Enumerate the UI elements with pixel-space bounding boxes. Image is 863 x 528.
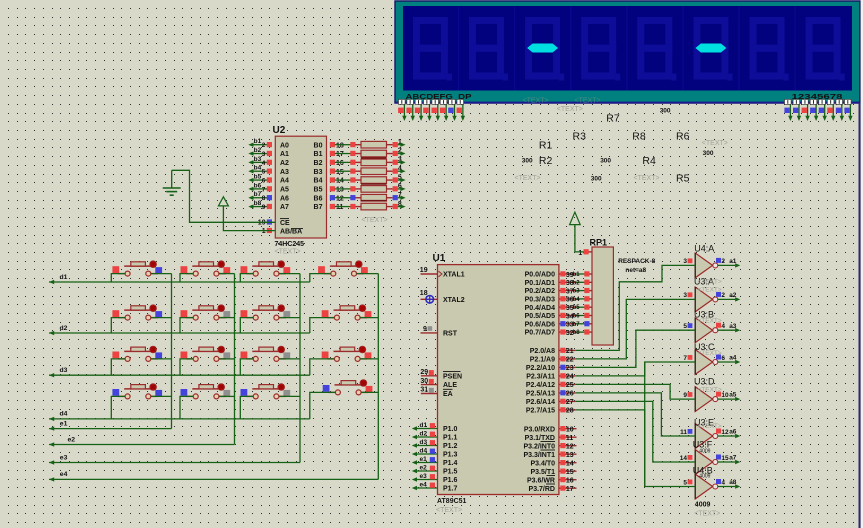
svg-text:e1: e1 (420, 456, 428, 463)
svg-text:P0.5/AD5: P0.5/AD5 (525, 313, 555, 320)
svg-text:4009: 4009 (699, 448, 710, 454)
svg-text:<TEXT>: <TEXT> (698, 386, 722, 393)
svg-text:22: 22 (566, 357, 574, 364)
U1 pin P3.6/WR (pin 16) (527, 476, 577, 485)
push button row3 col1 (112, 346, 162, 361)
svg-text:P1.5: P1.5 (443, 469, 458, 476)
inverter U4:A (4009) (683, 253, 740, 278)
U1 pin P2.3/A11 (pin 24) (526, 373, 575, 381)
wire column bus e4 (49, 477, 378, 481)
svg-text:d3: d3 (420, 439, 428, 446)
svg-text:R5: R5 (676, 173, 690, 185)
svg-text:P2.6/A14: P2.6/A14 (526, 399, 555, 406)
push button row2 col2 (181, 305, 231, 320)
ground (163, 170, 181, 195)
display segment pin A (398, 99, 407, 121)
wire P2.4 to U3:D input (575, 384, 695, 399)
svg-text:XTAL2: XTAL2 (443, 297, 465, 304)
svg-text:b7: b7 (254, 191, 262, 198)
svg-text:b3: b3 (254, 156, 262, 163)
svg-text:15: 15 (566, 469, 574, 476)
resistor R2 (300) segment line 2 (330, 148, 406, 158)
svg-text:B3: B3 (314, 169, 323, 176)
svg-text:R3: R3 (573, 130, 587, 142)
wire row bus d1 (49, 280, 310, 284)
svg-text:8: 8 (262, 195, 266, 202)
svg-text:b5: b5 (573, 305, 581, 311)
svg-text:EA: EA (443, 391, 453, 398)
U2 pin A1 (pin 3) wire b2 (248, 147, 289, 158)
svg-text:12: 12 (336, 195, 344, 202)
svg-text:<TEXT>: <TEXT> (436, 507, 462, 514)
display ghost digit 7 (753, 20, 789, 80)
svg-text:12: 12 (721, 429, 729, 436)
svg-text:13: 13 (566, 452, 574, 459)
wire column line col3 vertical (299, 274, 301, 463)
svg-text:R1: R1 (539, 139, 553, 151)
svg-text:R8: R8 (632, 130, 646, 142)
svg-text:P1.2: P1.2 (443, 443, 458, 450)
wire P2.6 to U3:F input (575, 401, 695, 462)
U1 pin P1.5 wire e2 (412, 464, 458, 475)
svg-text:13: 13 (336, 187, 344, 194)
wire ground to U2 CE (172, 170, 276, 222)
svg-text:A7: A7 (280, 204, 289, 211)
wire P2.3 to U3:C input (575, 362, 695, 376)
svg-text:24: 24 (566, 374, 574, 381)
svg-text:3: 3 (262, 151, 266, 158)
svg-text:7: 7 (262, 186, 266, 193)
svg-text:R4: R4 (642, 155, 656, 167)
svg-text:P0.2/AD2: P0.2/AD2 (525, 288, 555, 295)
svg-text:R7: R7 (606, 113, 620, 125)
svg-text:P3.3/INT1: P3.3/INT1 (523, 452, 555, 459)
push button row1 col2 (181, 261, 231, 276)
U1 pin P0.3/AD3 (pin 36) net b4 (525, 296, 592, 304)
svg-text:5: 5 (683, 323, 687, 330)
push button row3 col2 (181, 346, 231, 361)
wire column bus e2 (49, 442, 235, 446)
push button row4 col1 (112, 384, 162, 399)
U1 pin P2.1/A9 (pin 22) (530, 356, 576, 364)
resistor R1 (300) segment line 1 (330, 139, 406, 149)
wire segment shared vertical x644.7 (644, 362, 646, 487)
svg-text:P0.0/AD0: P0.0/AD0 (525, 272, 555, 279)
svg-text:10: 10 (721, 392, 729, 399)
display segment pin F (440, 99, 449, 121)
wire button r3c2 left lead to row bus d3 (180, 359, 193, 375)
display bottom border line (395, 102, 860, 104)
svg-text:<TEXT>: <TEXT> (362, 217, 388, 224)
svg-text:<TEXT>: <TEXT> (702, 140, 728, 147)
svg-text:AT89C51: AT89C51 (437, 498, 467, 505)
svg-text:P2.3/A11: P2.3/A11 (526, 374, 555, 381)
svg-text:14: 14 (336, 178, 344, 185)
U1 pin P3.3/INT1 (pin 13) (523, 450, 576, 459)
svg-text:P0.6/AD6: P0.6/AD6 (525, 321, 555, 328)
lit middle segment (cyan) (695, 44, 726, 53)
MCU U1 AT89C51 body (433, 253, 559, 505)
wire P2.1 to U3:A input (575, 299, 695, 359)
svg-text:e3: e3 (420, 473, 428, 480)
svg-text:d1: d1 (60, 274, 68, 281)
svg-text:10: 10 (566, 427, 574, 434)
svg-text:a5: a5 (729, 392, 737, 399)
display digit pin 1 (784, 99, 792, 121)
svg-text:a2: a2 (729, 292, 737, 299)
svg-text:d4: d4 (60, 411, 68, 418)
U2 pin A7 (pin 9) wire b8 (248, 200, 289, 211)
svg-text:2: 2 (721, 258, 725, 265)
svg-text:A0: A0 (280, 142, 289, 149)
svg-text:b2: b2 (254, 147, 262, 154)
svg-text:a1: a1 (729, 258, 737, 265)
svg-text:b8: b8 (573, 330, 581, 336)
svg-text:a3: a3 (729, 323, 737, 330)
svg-text:A1: A1 (280, 151, 289, 158)
svg-text:P1.1: P1.1 (443, 435, 458, 442)
U1 pin P1.1 wire d2 (412, 430, 458, 441)
svg-text:e2: e2 (68, 436, 76, 443)
display segment pin E (432, 99, 441, 121)
svg-text:P3.7/RD: P3.7/RD (529, 486, 555, 493)
svg-text:300: 300 (600, 157, 611, 164)
svg-text:RST: RST (443, 331, 458, 338)
display digit pin 7 (836, 99, 844, 121)
resistor R5 (300) segment line 5 (330, 174, 406, 184)
svg-text:16: 16 (566, 478, 574, 485)
svg-text:11: 11 (336, 204, 344, 211)
wire button r1c4 left lead to row bus d1 (310, 274, 331, 282)
U2 pin A4 (pin 6) wire b5 (248, 173, 289, 184)
svg-text:A2: A2 (280, 160, 289, 167)
svg-text:<TEXT>: <TEXT> (694, 511, 720, 518)
display digit pin 8 (844, 99, 852, 121)
push button row2 col4 (322, 305, 372, 320)
svg-text:P0.4/AD4: P0.4/AD4 (525, 305, 555, 312)
svg-text:2: 2 (262, 142, 266, 149)
svg-text:b2: b2 (573, 280, 581, 286)
wire button r4c3 left lead to row bus d4 (240, 396, 253, 419)
wire button r4c3 right lead to column line e3 (279, 395, 300, 397)
U1 pin P1.3 wire d4 (412, 447, 458, 458)
svg-text:b5: b5 (254, 173, 262, 180)
svg-text:19: 19 (420, 267, 428, 274)
resistor R7 (300) segment line 7 (330, 192, 406, 202)
display ghost digit 3 (529, 20, 565, 80)
display ghost digit 2 (473, 20, 509, 80)
svg-text:P3.6/WR: P3.6/WR (527, 477, 555, 484)
svg-text:XTAL1: XTAL1 (443, 272, 465, 279)
wire button r4c4 left lead to row bus d4 (310, 392, 336, 419)
svg-text:P2.4/A12: P2.4/A12 (526, 382, 555, 389)
U1 pin P3.2/INT0 (pin 12) (523, 442, 576, 451)
svg-text:28: 28 (566, 408, 574, 415)
svg-text:P2.7/A15: P2.7/A15 (526, 408, 555, 415)
svg-text:<TEXT>: <TEXT> (523, 98, 549, 105)
svg-text:P3.2/INT0: P3.2/INT0 (523, 443, 555, 450)
U1 pin P0.4/AD4 (pin 35) net b5 (525, 305, 592, 313)
resistor R6 (300) segment line 6 (330, 183, 406, 193)
U1 pin EA (31) (420, 387, 452, 398)
svg-text:a7: a7 (729, 455, 737, 462)
svg-text:<TEXT>: <TEXT> (698, 423, 722, 430)
wire button r1c3 left lead to row bus d1 (240, 274, 253, 282)
buffer U2 74HC245 body (273, 125, 327, 248)
display segment pin DP (457, 99, 466, 121)
U2 pin A6 (pin 8) wire b7 (248, 191, 289, 202)
svg-text:7: 7 (683, 355, 687, 362)
display digit cell separators (459, 7, 796, 91)
svg-text:4009: 4009 (699, 474, 710, 480)
wire column line col4 vertical (377, 274, 379, 480)
wire P2.2 to U3:B input (575, 330, 695, 367)
wire button r2c3 right lead to column line e3 (279, 317, 300, 319)
svg-text:30: 30 (420, 378, 428, 385)
svg-text:RP1: RP1 (590, 237, 608, 247)
svg-text:b4: b4 (254, 165, 262, 172)
U1 pin XTAL2 (18) with node marker (420, 290, 465, 304)
wire power to U2 AB/BA (223, 206, 275, 231)
push button row3 col3 (241, 346, 291, 361)
svg-text:b7: b7 (573, 322, 581, 328)
svg-text:P2.5/A13: P2.5/A13 (526, 391, 555, 398)
svg-text:B2: B2 (314, 160, 323, 167)
U1 pin P2.6/A14 (pin 27) (526, 399, 575, 407)
wire button r4c1 left lead to row bus d4 (111, 396, 125, 419)
svg-text:P1.6: P1.6 (443, 477, 458, 484)
push button row2 col1 (112, 305, 162, 320)
U1 pin P1.4 wire e1 (412, 456, 458, 467)
U2 pin A2 (pin 4) wire b3 (248, 156, 289, 167)
svg-text:B5: B5 (314, 187, 323, 194)
wire button r1c3 right lead to column line e3 (279, 273, 300, 275)
wire button r3c2 right lead to column line e2 (219, 358, 235, 360)
svg-text:PSEN: PSEN (443, 373, 462, 380)
svg-text:e4: e4 (60, 471, 68, 478)
svg-text:1: 1 (262, 228, 266, 235)
svg-text:74HC245: 74HC245 (275, 241, 305, 248)
wire button r1c1 right lead to column line e1 (151, 273, 172, 275)
U1 pin P0.5/AD5 (pin 34) net b6 (525, 313, 592, 321)
svg-text:P2.1/A9: P2.1/A9 (530, 357, 555, 364)
svg-text:11: 11 (566, 435, 574, 442)
lit middle segment (cyan) (527, 44, 558, 53)
U2 pin CE (19) (258, 219, 290, 227)
display ghost digit 8 (809, 20, 845, 80)
svg-text:U2: U2 (273, 125, 286, 136)
display digit pin 5 (819, 99, 827, 121)
wire button r4c4 right lead to column line e4 (361, 391, 378, 393)
wire button r4c2 left lead to row bus d4 (180, 396, 193, 419)
U1 pin P3.7/RD (pin 17) (529, 484, 577, 493)
wire row bus d3 (49, 373, 310, 377)
U2 pin A0 (pin 2) wire b1 (248, 138, 289, 149)
svg-text:d2: d2 (420, 430, 428, 437)
svg-text:23: 23 (566, 365, 574, 372)
svg-text:net=a8: net=a8 (625, 267, 646, 274)
svg-text:<TEXT>: <TEXT> (634, 175, 660, 182)
display digit pin 3 (802, 99, 810, 121)
wire button r3c4 right lead to column line e4 (360, 358, 378, 360)
svg-text:R2: R2 (539, 155, 553, 167)
window border right edge (859, 0, 863, 528)
U1 pin RST (9) (421, 326, 458, 338)
wire button r3c1 right lead to column line e1 (151, 358, 172, 360)
resistor pack RP1 RESPACK-8 body (590, 237, 656, 345)
svg-text:d4: d4 (420, 447, 428, 454)
display segment pin G (448, 99, 457, 121)
svg-text:12: 12 (566, 444, 574, 451)
inverter U3:A (4009) (683, 287, 740, 312)
svg-text:5: 5 (262, 169, 266, 176)
svg-text:a8: a8 (729, 479, 737, 486)
svg-text:a6: a6 (729, 429, 737, 436)
svg-text:31: 31 (420, 387, 428, 394)
U2 pin AB/BA (1) (262, 228, 303, 236)
wire button r4c2 right lead to column line e2 (219, 395, 235, 397)
svg-text:3: 3 (683, 258, 687, 265)
svg-text:<TEXT>: <TEXT> (698, 279, 722, 286)
svg-text:b1: b1 (573, 272, 581, 278)
push button row2 col3 (241, 305, 291, 320)
svg-text:16: 16 (336, 160, 344, 167)
svg-text:b3: b3 (573, 289, 581, 295)
wire button r2c4 left lead to row bus d2 (310, 318, 335, 333)
svg-text:1: 1 (578, 250, 582, 257)
wire button r1c2 right lead to column line e2 (219, 273, 235, 275)
svg-text:6: 6 (721, 355, 725, 362)
svg-text:b6: b6 (573, 314, 581, 320)
U2 pin A5 (pin 7) wire b6 (248, 182, 289, 193)
resistor R8 (300) segment line 8 (330, 201, 406, 211)
U1 pin P3.1/TXD (pin 11) (525, 435, 577, 443)
svg-text:B0: B0 (314, 142, 323, 149)
resistor R3 (300) segment line 3 (330, 157, 406, 167)
svg-text:a4: a4 (729, 355, 737, 362)
U1 pin P3.4/T0 (pin 14) (530, 460, 576, 468)
wire button r1c1 left lead to row bus d1 (111, 274, 125, 282)
push button row1 col4 (318, 261, 368, 276)
svg-text:B7: B7 (314, 204, 323, 211)
svg-text:AB/BA: AB/BA (280, 229, 302, 236)
svg-text:A5: A5 (280, 187, 289, 194)
U1 pin P2.5/A13 (pin 26) (526, 390, 575, 398)
inverter U3:F (4009) (680, 450, 741, 475)
display ghost digit 1 (416, 20, 452, 80)
U1 pin P1.0 wire d1 (412, 422, 458, 433)
wire button r1c2 left lead to row bus d1 (180, 274, 193, 282)
svg-text:4: 4 (262, 160, 266, 167)
svg-text:2: 2 (721, 292, 725, 299)
push button row1 col1 (112, 261, 162, 276)
wire column bus e3 (49, 460, 300, 464)
svg-text:P1.4: P1.4 (443, 460, 458, 467)
wire button r4c1 right lead to column line e1 (151, 395, 172, 397)
push button row3 col4 (322, 346, 372, 361)
svg-text:ALE: ALE (443, 382, 457, 389)
resistor R4 (300) segment line 4 (330, 165, 406, 175)
svg-text:e1: e1 (60, 420, 68, 427)
wire P2.0 to U4:A input (575, 265, 695, 350)
svg-text:d3: d3 (60, 367, 68, 374)
svg-text:P2.2/A10: P2.2/A10 (526, 365, 555, 372)
svg-text:U4:A: U4:A (694, 244, 714, 254)
svg-text:6: 6 (262, 177, 266, 184)
svg-text:B1: B1 (314, 151, 323, 158)
U1 pin P0.1/AD1 (pin 38) net b2 (525, 280, 592, 288)
power terminal (RP1) (570, 212, 581, 225)
wire button r2c2 right lead to column line e2 (219, 317, 235, 319)
svg-text:P1.0: P1.0 (443, 426, 458, 433)
svg-text:A4: A4 (280, 178, 289, 185)
U1 pin P1.2 wire d3 (412, 439, 458, 450)
svg-text:15: 15 (336, 169, 344, 176)
svg-text:b8: b8 (254, 200, 262, 207)
wire button r3c3 right lead to column line e3 (279, 358, 300, 360)
U1 pin ALE (30) (420, 378, 457, 389)
svg-text:A3: A3 (280, 169, 289, 176)
svg-text:300: 300 (591, 175, 602, 182)
wire button r3c4 left lead to row bus d3 (310, 359, 335, 375)
svg-text:A6: A6 (280, 195, 289, 202)
display segment pin C (415, 99, 424, 121)
display segment pin D (423, 99, 432, 121)
wire button r1c4 right lead to column line e4 (357, 273, 379, 275)
svg-text:14: 14 (566, 461, 574, 468)
svg-text:<TEXT>: <TEXT> (698, 350, 722, 357)
svg-text:d1: d1 (420, 422, 428, 429)
svg-text:e2: e2 (420, 464, 428, 471)
svg-text:d2: d2 (60, 325, 68, 332)
svg-text:29: 29 (420, 369, 428, 376)
wire button r2c1 left lead to row bus d2 (111, 318, 125, 333)
svg-text:4: 4 (721, 479, 725, 486)
U1 pin PSEN (29) (420, 369, 462, 380)
svg-text:P3.1/TXD: P3.1/TXD (525, 435, 555, 442)
wire row bus d2 (49, 331, 310, 335)
svg-text:B4: B4 (314, 178, 323, 185)
U1 pin XTAL1 (19) (420, 267, 465, 279)
svg-text:17: 17 (336, 151, 344, 158)
U1 pin P1.7 wire e4 (412, 481, 458, 492)
svg-text:P1.3: P1.3 (443, 452, 458, 459)
push button row1 col3 (241, 261, 291, 276)
wire button r3c1 left lead to row bus d3 (111, 359, 125, 375)
U1 pin P3.5/T1 (pin 15) (530, 469, 576, 477)
wire P2.5 to U3:E input (575, 393, 695, 436)
wire button r3c3 left lead to row bus d3 (240, 359, 253, 375)
display digit pin 2 (793, 99, 801, 121)
wire power to RP1 pin 1 (575, 225, 584, 252)
svg-text:18: 18 (336, 142, 344, 149)
svg-text:9: 9 (423, 326, 427, 333)
svg-text:<TEXT>: <TEXT> (515, 175, 541, 182)
U1 pin P2.0/A8 (pin 21) (530, 348, 576, 356)
svg-text:27: 27 (566, 399, 574, 406)
display digit pin 6 (827, 99, 835, 121)
U1 pin P2.4/A12 (pin 25) (526, 382, 575, 390)
svg-text:P0.3/AD3: P0.3/AD3 (525, 297, 555, 304)
svg-text:9: 9 (262, 204, 266, 211)
inverter U3:B (4009) (683, 318, 740, 343)
inverter U4:B (4009) (683, 474, 740, 499)
svg-text:e3: e3 (60, 454, 68, 461)
svg-text:17: 17 (566, 486, 574, 493)
labels <TEXT> near gates (698, 279, 722, 431)
display segment pin B (406, 99, 415, 121)
svg-text:e4: e4 (420, 481, 428, 488)
